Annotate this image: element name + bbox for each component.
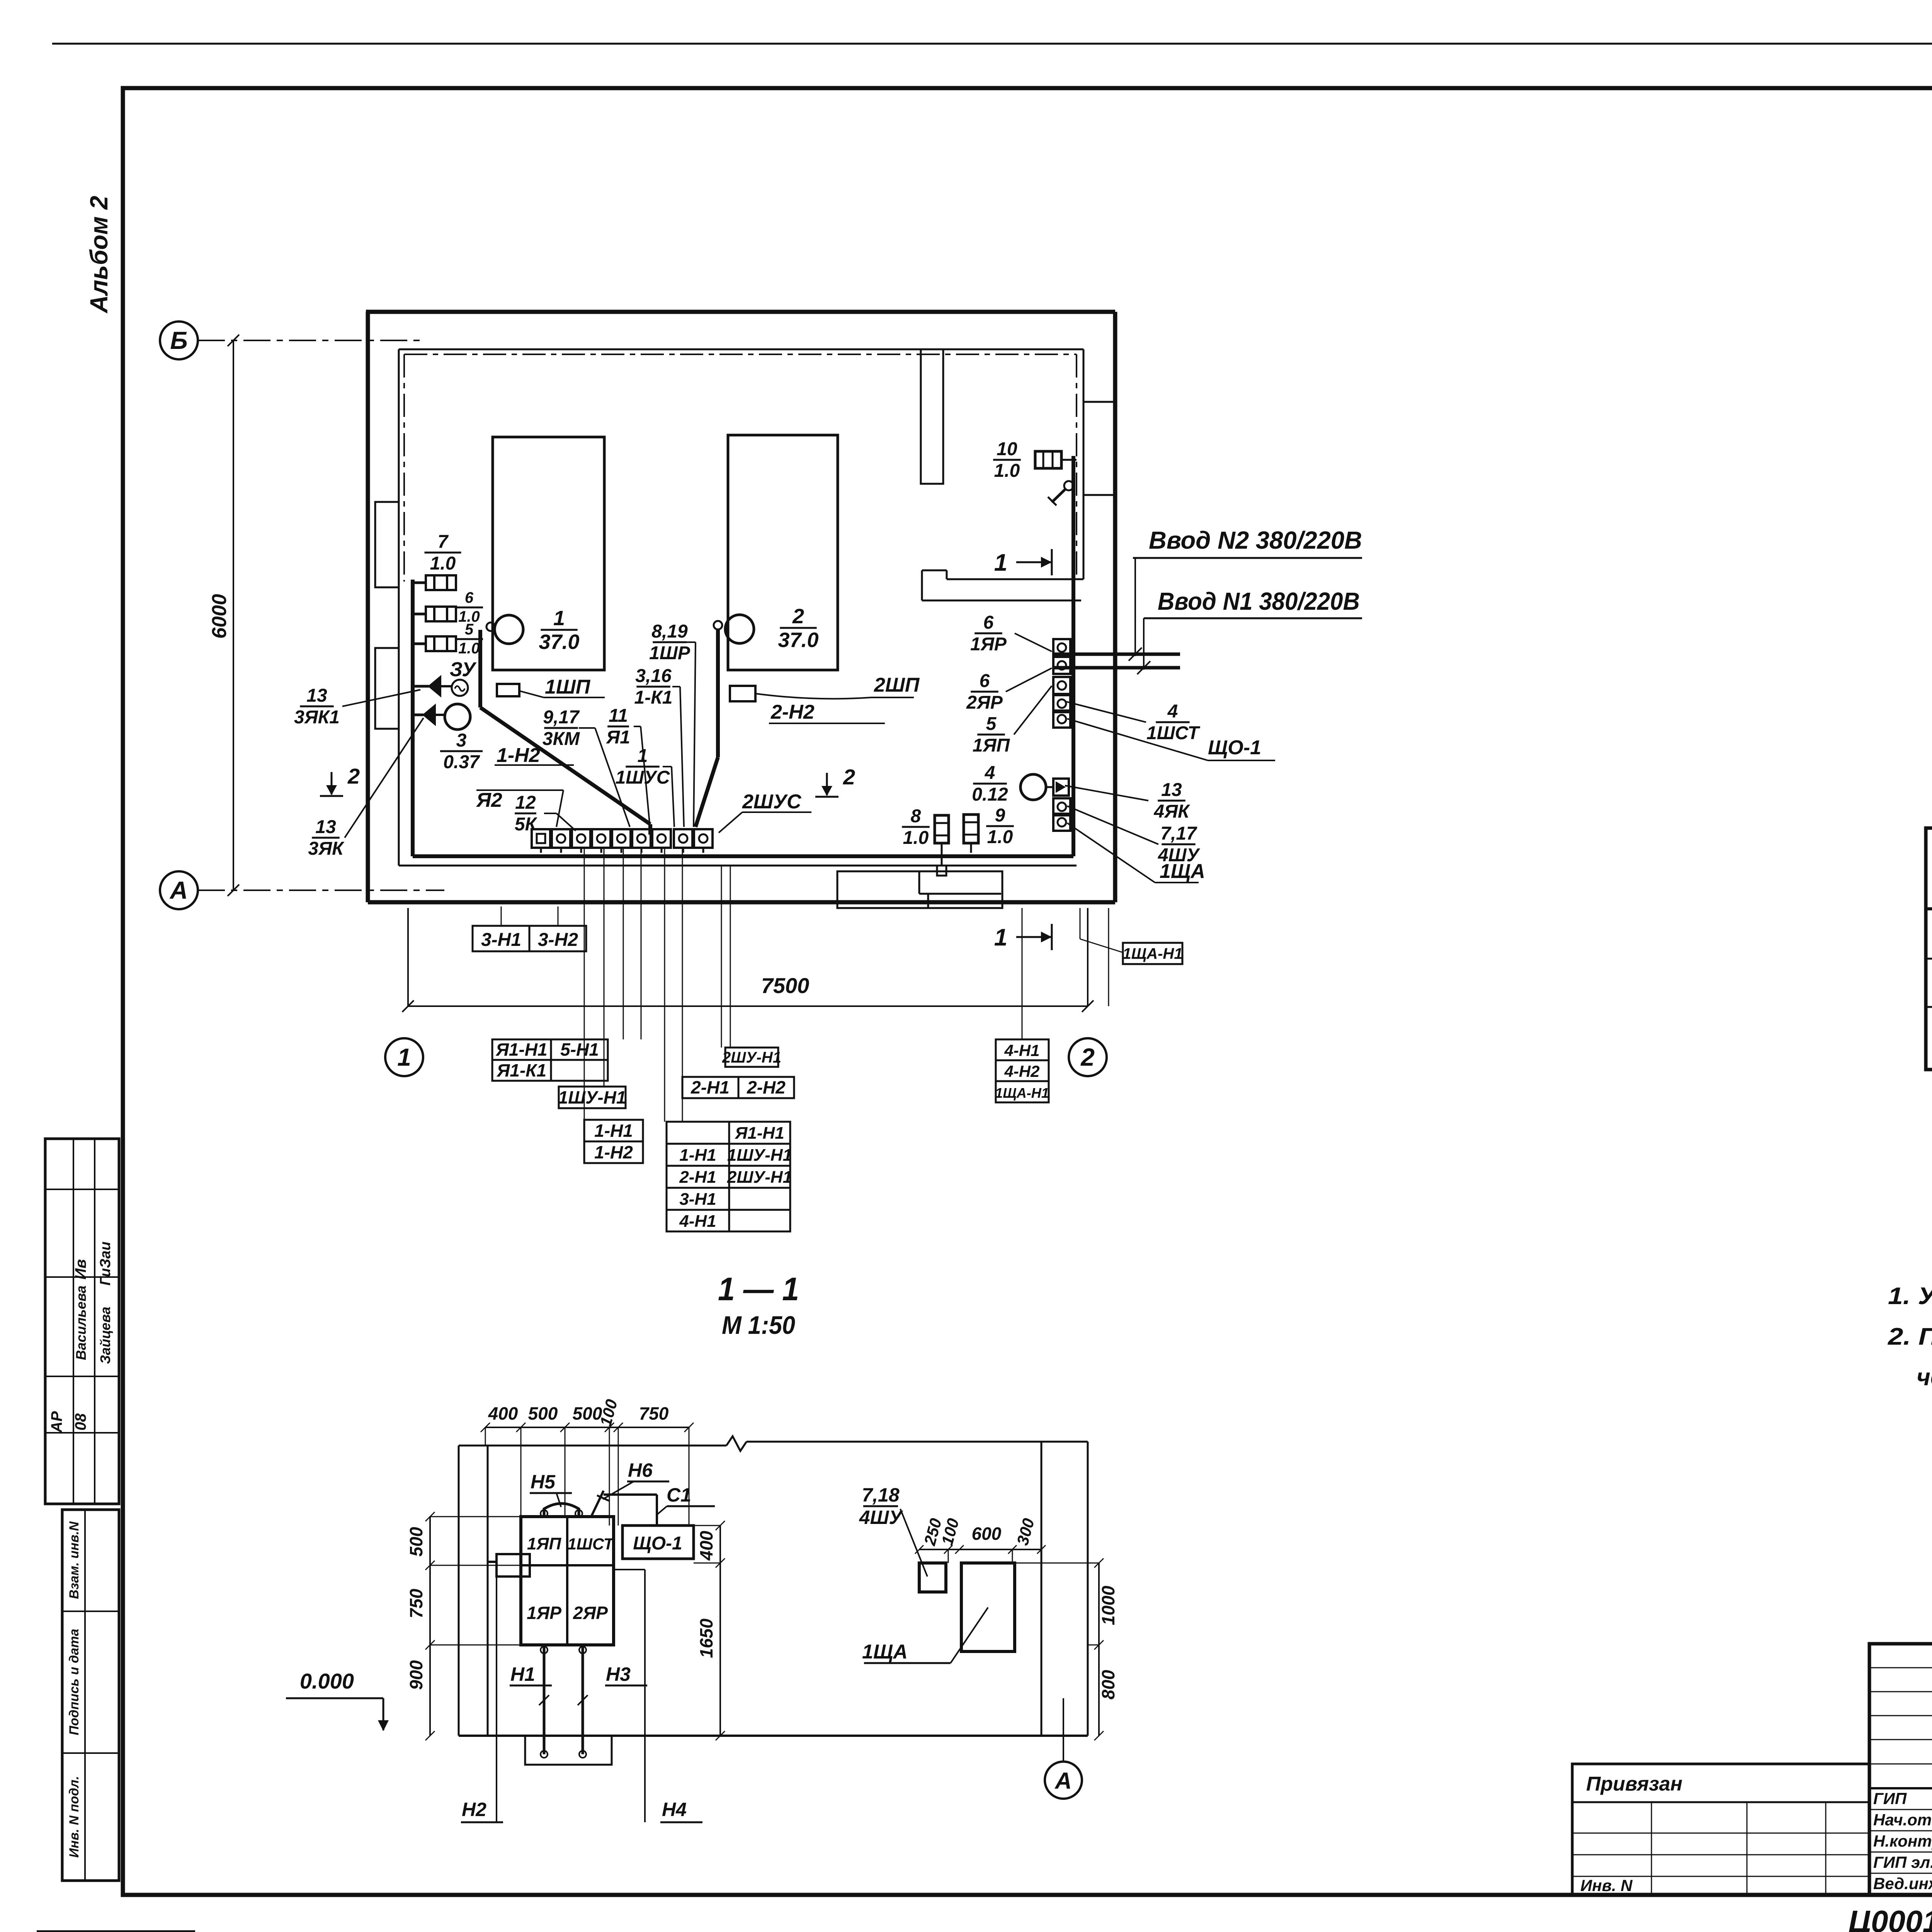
svg-text:ЩО-1: ЩО-1 [633, 1533, 682, 1554]
svg-text:2ШП: 2ШП [874, 674, 920, 696]
svg-text:1-Н2: 1-Н2 [594, 1142, 633, 1162]
svg-text:600: 600 [972, 1524, 1002, 1544]
svg-text:2-Н2: 2-Н2 [770, 701, 815, 723]
svg-text:1ЩА: 1ЩА [1160, 860, 1205, 883]
svg-text:4: 4 [1167, 701, 1178, 722]
svg-text:1: 1 [553, 607, 565, 630]
svg-text:1-Н2: 1-Н2 [497, 744, 540, 767]
svg-text:Я1-К1: Я1-К1 [497, 1060, 546, 1080]
svg-text:1ЯР: 1ЯР [527, 1603, 561, 1623]
svg-text:2: 2 [792, 605, 804, 628]
svg-text:Н1: Н1 [510, 1663, 535, 1685]
svg-text:1ЩА-Н1: 1ЩА-Н1 [995, 1085, 1049, 1101]
svg-text:4-Н1: 4-Н1 [679, 1212, 716, 1231]
svg-text:Н4: Н4 [662, 1799, 687, 1820]
svg-text:4ШУ: 4ШУ [859, 1507, 904, 1528]
svg-text:1: 1 [994, 924, 1007, 951]
svg-text:3ЯК1: 3ЯК1 [294, 707, 340, 728]
svg-text:2ЯР: 2ЯР [573, 1603, 608, 1623]
svg-text:3-Н2: 3-Н2 [538, 930, 578, 950]
svg-text:1-Н1: 1-Н1 [594, 1121, 633, 1141]
svg-text:С1: С1 [667, 1484, 691, 1506]
svg-text:1.0: 1.0 [994, 461, 1020, 481]
svg-text:Зайцева: Зайцева [97, 1307, 113, 1364]
svg-text:9: 9 [995, 805, 1005, 826]
svg-text:Я1-Н1: Я1-Н1 [735, 1124, 784, 1143]
svg-text:1.0: 1.0 [987, 827, 1013, 847]
svg-text:0.12: 0.12 [972, 784, 1008, 805]
svg-text:Я1: Я1 [605, 727, 630, 748]
svg-text:6: 6 [980, 671, 990, 691]
svg-text:Инв. N подл.: Инв. N подл. [67, 1776, 82, 1858]
svg-text:1: 1 [397, 1043, 411, 1071]
svg-text:Н6: Н6 [628, 1459, 653, 1481]
svg-text:Н3: Н3 [606, 1663, 631, 1685]
svg-text:3-Н1: 3-Н1 [679, 1190, 716, 1209]
svg-text:Ввод N1 380/220В: Ввод N1 380/220В [1158, 587, 1360, 615]
svg-text:Н2: Н2 [462, 1799, 486, 1820]
svg-text:7,17: 7,17 [1160, 823, 1197, 844]
svg-text:13: 13 [1161, 780, 1182, 800]
svg-text:750: 750 [406, 1588, 426, 1618]
svg-text:1. Установку щитов приборов: 1. Установку щитов приборов см. раздел А… [1888, 1283, 1932, 1310]
svg-text:8,19: 8,19 [651, 621, 688, 642]
svg-text:2ШУС: 2ШУС [742, 791, 802, 813]
svg-text:1ШСТ: 1ШСТ [568, 1535, 615, 1553]
svg-text:37.0: 37.0 [778, 629, 818, 652]
svg-text:Н5: Н5 [531, 1471, 556, 1493]
svg-text:1ШУ-Н1: 1ШУ-Н1 [558, 1087, 626, 1107]
svg-text:2: 2 [1080, 1043, 1095, 1071]
svg-text:1 — 1: 1 — 1 [718, 1271, 799, 1307]
svg-text:А: А [1054, 1768, 1071, 1794]
svg-text:3: 3 [456, 730, 467, 751]
svg-text:2ШУ-Н1: 2ШУ-Н1 [722, 1049, 781, 1066]
svg-text:1ШУС: 1ШУС [616, 767, 670, 788]
svg-text:1.0: 1.0 [903, 828, 929, 848]
svg-text:400: 400 [488, 1403, 518, 1423]
svg-text:7500: 7500 [761, 973, 810, 998]
svg-text:1: 1 [994, 549, 1007, 576]
svg-text:2: 2 [843, 765, 855, 789]
svg-text:750: 750 [639, 1403, 669, 1423]
svg-text:2ЯР: 2ЯР [966, 692, 1003, 713]
svg-text:1: 1 [638, 746, 648, 766]
svg-text:ГИП: ГИП [1873, 1789, 1907, 1808]
svg-text:ЩО-1: ЩО-1 [1208, 736, 1261, 759]
svg-text:1000: 1000 [1098, 1585, 1118, 1625]
svg-text:Ив: Ив [72, 1259, 89, 1280]
svg-text:Привязан: Привязан [1586, 1773, 1682, 1795]
svg-text:6: 6 [465, 589, 474, 606]
svg-text:2-Н1: 2-Н1 [690, 1077, 730, 1097]
svg-text:0.000: 0.000 [300, 1669, 354, 1693]
svg-text:1-Н1: 1-Н1 [679, 1146, 716, 1165]
svg-text:1ШСТ: 1ШСТ [1146, 723, 1201, 743]
svg-text:АР: АР [48, 1411, 65, 1433]
svg-text:3-Н1: 3-Н1 [481, 930, 521, 950]
svg-text:800: 800 [1098, 1670, 1118, 1699]
svg-text:4-Н1: 4-Н1 [1004, 1041, 1039, 1060]
svg-text:10: 10 [997, 439, 1017, 459]
svg-text:Я2: Я2 [476, 789, 502, 811]
svg-text:1.0: 1.0 [430, 553, 456, 574]
svg-text:ГиЗаи: ГиЗаи [97, 1242, 114, 1286]
svg-text:ческих печей, обить сталью: ческих печей, обить сталью б = 1 мм по а… [1917, 1364, 1932, 1391]
svg-text:Подпись и дата: Подпись и дата [67, 1629, 82, 1735]
svg-text:4-Н2: 4-Н2 [1004, 1062, 1039, 1080]
svg-text:1ШР: 1ШР [649, 643, 690, 663]
svg-text:Б: Б [170, 327, 187, 354]
svg-text:2: 2 [347, 764, 360, 788]
svg-text:0.37: 0.37 [443, 752, 480, 772]
svg-text:5К: 5К [515, 814, 538, 835]
svg-text:1ШУ-Н1: 1ШУ-Н1 [727, 1146, 792, 1165]
svg-text:6: 6 [983, 612, 994, 633]
svg-text:Инв. N: Инв. N [1580, 1876, 1633, 1895]
svg-text:08: 08 [72, 1413, 89, 1430]
svg-text:2-Н1: 2-Н1 [679, 1168, 716, 1187]
svg-text:1ЩА-Н1: 1ЩА-Н1 [1122, 946, 1182, 963]
svg-text:1650: 1650 [696, 1618, 716, 1658]
svg-text:М 1:50: М 1:50 [722, 1311, 795, 1339]
svg-text:2. Пол и стены, в местах: 2. Пол и стены, в местах установки элект… [1888, 1323, 1932, 1350]
svg-text:5: 5 [986, 714, 997, 734]
svg-text:ЗУ: ЗУ [450, 658, 477, 681]
svg-text:5: 5 [465, 621, 474, 638]
svg-text:8: 8 [911, 806, 921, 827]
svg-text:2ШУ-Н1: 2ШУ-Н1 [727, 1168, 792, 1187]
svg-text:13: 13 [306, 685, 327, 706]
svg-text:1ЯР: 1ЯР [970, 634, 1007, 655]
svg-text:3КМ: 3КМ [543, 729, 580, 749]
svg-text:Вед.инж.: Вед.инж. [1873, 1874, 1932, 1893]
svg-text:Васильева: Васильева [73, 1286, 89, 1360]
svg-text:1ЯП: 1ЯП [973, 735, 1010, 756]
svg-text:9,17: 9,17 [543, 707, 580, 728]
svg-text:4ЯК: 4ЯК [1153, 801, 1190, 822]
svg-text:6000: 6000 [208, 594, 231, 639]
svg-text:5-Н1: 5-Н1 [560, 1039, 599, 1060]
svg-text:7: 7 [438, 532, 449, 552]
svg-text:Нач.отд.: Нач.отд. [1873, 1811, 1932, 1829]
svg-text:500: 500 [528, 1403, 558, 1423]
svg-text:Я1-Н1: Я1-Н1 [495, 1039, 547, 1060]
svg-text:4: 4 [985, 763, 995, 783]
svg-text:7,18: 7,18 [862, 1484, 900, 1506]
svg-text:А: А [169, 876, 188, 904]
svg-text:12: 12 [515, 793, 536, 813]
svg-text:1ШП: 1ШП [545, 676, 591, 698]
svg-text:1ЩА: 1ЩА [862, 1641, 908, 1663]
svg-text:1.0: 1.0 [458, 640, 480, 657]
svg-text:37.0: 37.0 [539, 631, 579, 654]
svg-text:ГИП эл.: ГИП эл. [1873, 1853, 1932, 1871]
svg-text:11: 11 [609, 706, 628, 726]
svg-text:1ЯП: 1ЯП [527, 1534, 562, 1553]
svg-text:400: 400 [696, 1531, 716, 1561]
svg-text:Ц00011- 02: Ц00011- 02 [1849, 1904, 1932, 1932]
svg-text:Альбом 2: Альбом 2 [85, 196, 113, 314]
svg-text:900: 900 [406, 1660, 426, 1690]
svg-text:500: 500 [406, 1527, 426, 1556]
svg-text:Н.контр.: Н.контр. [1873, 1832, 1932, 1850]
svg-text:Ввод N2 380/220В: Ввод N2 380/220В [1149, 526, 1362, 554]
svg-text:3ЯК: 3ЯК [308, 838, 345, 859]
svg-text:3,16: 3,16 [635, 666, 672, 686]
svg-text:2-Н2: 2-Н2 [747, 1077, 786, 1097]
svg-text:13: 13 [315, 817, 336, 837]
svg-text:Взам. инв.N: Взам. инв.N [67, 1521, 82, 1599]
svg-text:1-К1: 1-К1 [634, 687, 673, 708]
